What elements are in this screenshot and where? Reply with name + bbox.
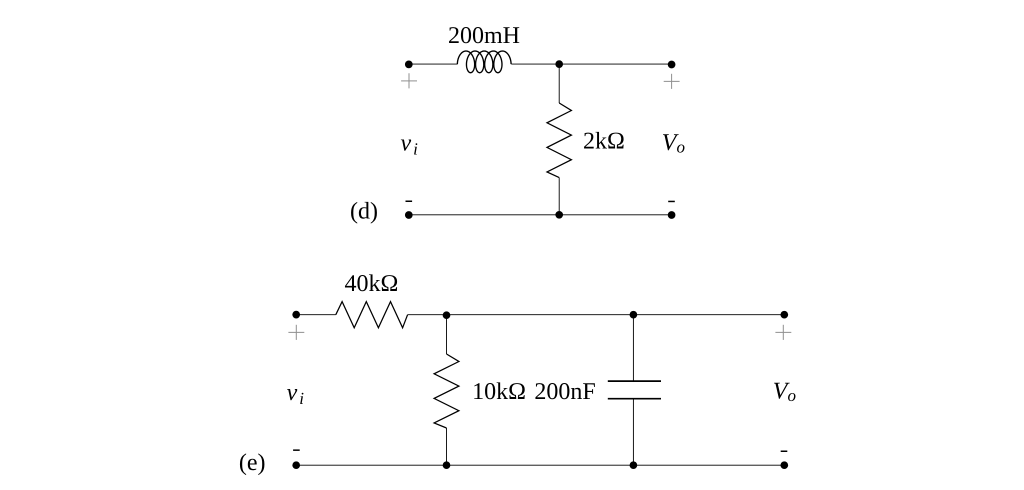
capacitor C 200nF bottom plate <box>608 398 661 400</box>
terminal dot (e) bottom-left <box>292 461 300 469</box>
svg-text:200nF: 200nF <box>534 379 595 405</box>
wire: cap node to top-right terminal <box>633 314 784 316</box>
inductor L 200mH <box>457 51 511 73</box>
wire: (d) top-left terminal to inductor <box>409 63 458 65</box>
wire: (e) bottom rail <box>296 464 784 466</box>
node dot (e) top resistor <box>443 311 451 319</box>
svg-text:(d): (d) <box>350 199 378 225</box>
wire: resistor 10k to bottom <box>446 428 448 465</box>
plus sign (d) left <box>401 73 417 88</box>
resistor 40kOhm zigzag <box>336 302 408 328</box>
terminal dot (d) top-left <box>405 61 413 69</box>
node dot (d) bottom-middle <box>555 211 563 219</box>
plus sign (e) right <box>775 325 791 340</box>
node dot (e) bottom capacitor <box>630 461 638 469</box>
minus sign (e) left <box>293 449 300 451</box>
terminal dot (e) bottom-right <box>780 461 788 469</box>
svg-text:(e): (e) <box>239 450 266 476</box>
node dot (e) bottom resistor <box>443 461 451 469</box>
wire: node down to resistor 10k <box>446 315 448 354</box>
wire: capacitor bottom plate to bottom rail <box>632 399 634 466</box>
resistor 2kOhm zigzag <box>547 103 571 178</box>
svg-text:40kΩ: 40kΩ <box>344 271 398 297</box>
terminal dot (e) top-right <box>780 311 788 319</box>
resistor 10kOhm zigzag <box>434 354 459 428</box>
minus sign (d) left <box>406 201 413 203</box>
wire: node down to resistor 2k <box>558 64 560 103</box>
minus sign (d) right <box>668 201 675 203</box>
capacitor C 200nF top plate <box>608 380 661 382</box>
svg-text:2kΩ: 2kΩ <box>583 129 625 155</box>
svg-text:200mH: 200mH <box>448 23 520 49</box>
minus sign (e) right <box>781 451 788 453</box>
wire: top-middle node to top-right terminal <box>559 63 671 65</box>
wire: inductor to top-middle node <box>511 63 559 65</box>
wire: cap node down to capacitor top plate <box>632 315 634 381</box>
wire: mid node to cap node <box>447 314 634 316</box>
terminal dot (d) bottom-right <box>668 211 676 219</box>
wire: (d) bottom rail <box>409 214 672 216</box>
plus sign (d) right <box>664 74 680 89</box>
terminal dot (d) top-right <box>668 61 676 69</box>
plus sign (e) left <box>288 325 304 340</box>
terminal dot (d) bottom-left <box>405 211 413 219</box>
wire: (e) top-left terminal to resistor 40k <box>296 314 336 316</box>
node dot (d) top-middle <box>555 60 563 68</box>
wire: resistor 40k to mid node <box>408 314 447 316</box>
svg-text:10kΩ: 10kΩ <box>472 379 526 405</box>
wire: resistor 2k to bottom node <box>558 178 560 215</box>
node dot (e) top capacitor <box>630 311 638 319</box>
terminal dot (e) top-left <box>292 311 300 319</box>
